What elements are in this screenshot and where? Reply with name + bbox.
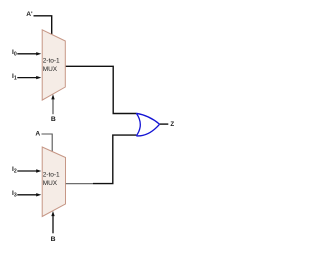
wire select B arrow into bottom of U1 <box>51 94 54 114</box>
svg-text:I2: I2 <box>12 166 17 175</box>
svg-text:A: A <box>35 131 40 138</box>
svg-text:B: B <box>51 236 56 243</box>
node B label (top mux) <box>51 116 56 123</box>
mux U2 (2-to-1 MUX, bottom) <box>42 147 65 217</box>
node A' label <box>26 11 33 18</box>
node Z label <box>170 121 174 128</box>
svg-text:MUX: MUX <box>43 180 58 187</box>
wire input I2 arrow into U2 <box>17 169 41 172</box>
wire A' to top of MUX U1 <box>34 16 52 35</box>
svg-text:2-to-1: 2-to-1 <box>43 171 60 178</box>
node B label (bottom mux) <box>51 236 56 243</box>
wire input I1 arrow into U1 <box>17 76 41 79</box>
node I3 label <box>12 190 17 199</box>
node I2 label <box>12 166 17 175</box>
wire U2 output to OR gate bottom input <box>66 135 137 184</box>
svg-text:I1: I1 <box>12 73 17 82</box>
svg-text:2-to-1: 2-to-1 <box>43 57 60 64</box>
wire input I0 arrow into U1 <box>17 52 41 55</box>
mux U1 (2-to-1 MUX, top) <box>42 30 65 100</box>
node A label <box>35 131 40 138</box>
node I1 label <box>12 73 17 82</box>
wire U1 output to OR gate top input <box>66 66 137 113</box>
wire A to top of MUX U2 <box>42 134 53 152</box>
svg-text:I3: I3 <box>12 190 17 199</box>
svg-text:I0: I0 <box>12 49 17 58</box>
svg-text:MUX: MUX <box>43 66 58 73</box>
svg-text:Z: Z <box>170 121 174 128</box>
svg-text:B: B <box>51 116 56 123</box>
wire select B arrow into bottom of U2 <box>51 211 54 233</box>
svg-text:A': A' <box>26 11 33 18</box>
node I0 label <box>12 49 17 58</box>
wire input I3 arrow into U2 <box>17 193 41 196</box>
wire G1 output to Z <box>160 123 169 125</box>
or-gate G1 <box>136 113 159 136</box>
